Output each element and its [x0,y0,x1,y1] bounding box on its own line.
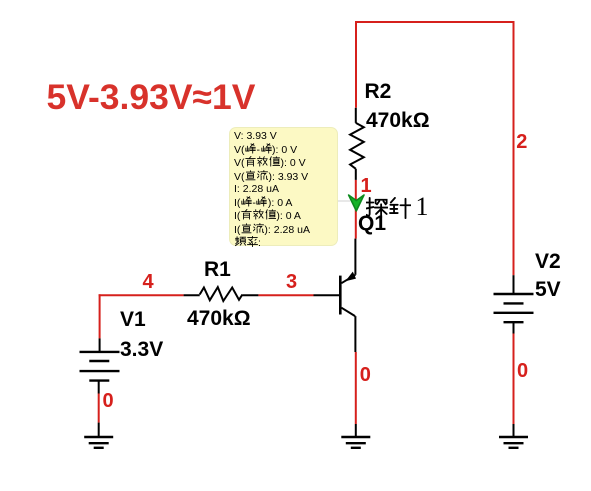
ground V1 [84,423,113,448]
node 0 at V1 [103,391,114,411]
label V1 [120,309,146,330]
wire base horizontal right (node 3) [258,294,313,296]
probe I line [234,183,337,196]
title annotation [47,77,256,118]
probe freq line [234,236,337,250]
probe data box [229,127,338,246]
value R1 470k [187,308,251,329]
value V1 3.3V [120,339,163,360]
wire node1 vertical [355,180,357,239]
value V2 5V [535,279,561,300]
probe arrow [349,195,364,211]
resistor R2 [350,108,364,180]
wire V2 bottom to ground [513,334,515,425]
node 0 at V2 [517,361,528,381]
probe leader line [338,200,350,202]
probe Vdc line [234,170,337,184]
ground V2 [499,424,528,448]
probe label 探针1 [365,196,429,223]
label Q1 [358,213,386,234]
glyph defs [0,0,1,1]
battery V1 [80,338,120,393]
wire top horizontal node2 [356,22,514,275]
battery V2 [494,275,534,333]
wire base horizontal left (node 4) [99,294,184,296]
wire emitter to ground [355,352,357,424]
probe V line [234,130,337,143]
node 3 [286,272,297,292]
probe Idc line [234,223,337,237]
node 4 [143,272,154,292]
label V2 [535,251,561,272]
ground Q1 emitter [341,424,370,448]
probe Vpp line [234,143,337,157]
node 1 [361,176,372,196]
label R2 [365,81,392,102]
probe Vrms line [234,156,337,170]
label R1 [204,259,231,280]
probe Ipp line [234,196,337,210]
wire V1 bottom to ground [98,394,100,423]
node 2 [516,132,527,152]
wire V1 top vertical [99,294,101,338]
resistor R1 [184,287,259,301]
transistor Q1 [314,239,357,352]
node 0 at Q1 [360,365,371,385]
value R2 470k [366,110,430,131]
probe Irms line [234,209,337,223]
